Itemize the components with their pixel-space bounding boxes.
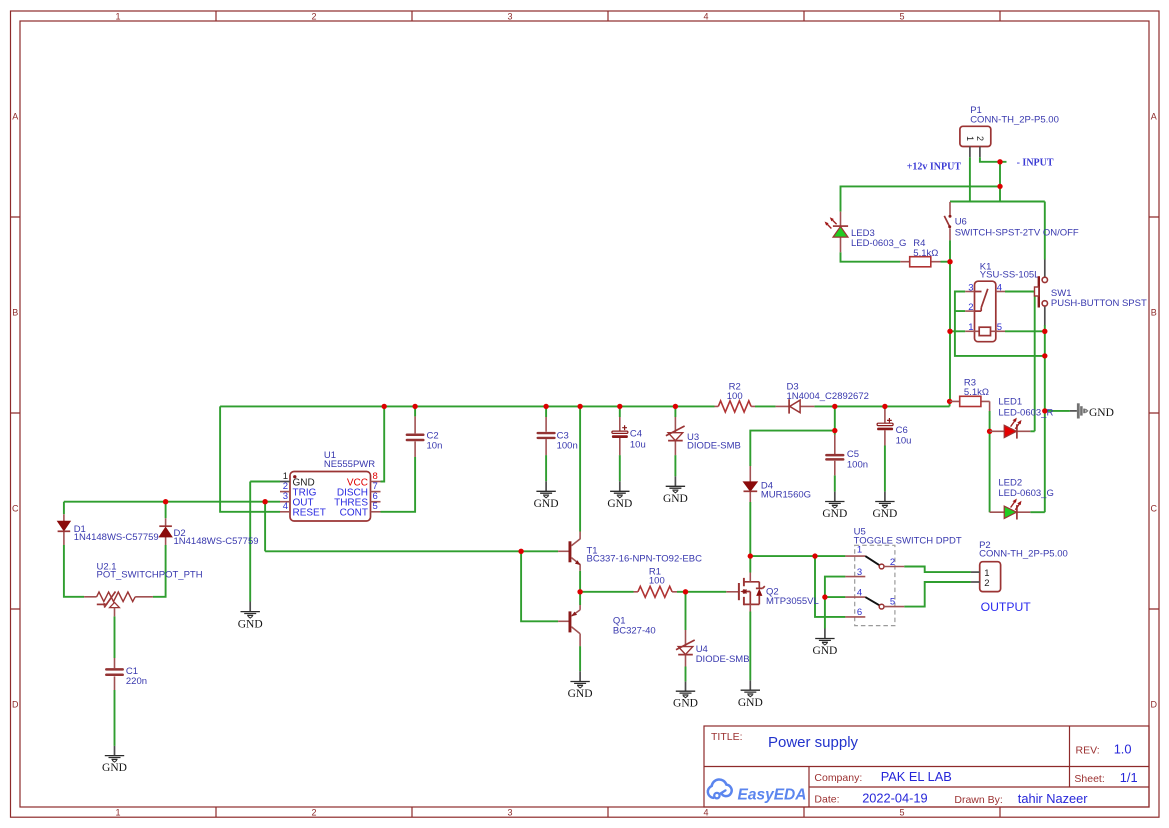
wire SW1 bottom to K1 row xyxy=(1044,325,1046,331)
wire C6 bottom xyxy=(884,446,886,492)
wire U4 branch down xyxy=(685,592,687,630)
svg-text:2: 2 xyxy=(984,578,989,589)
svg-text:Sheet:: Sheet: xyxy=(1074,773,1104,785)
zener U3 DIODE-SMB xyxy=(666,417,741,455)
svg-text:1: 1 xyxy=(965,136,975,141)
ground symbol at U3 xyxy=(663,476,688,505)
svg-text:GND: GND xyxy=(102,762,127,774)
wire C2 top xyxy=(414,406,416,416)
wire LED2 anode drop xyxy=(989,431,991,512)
wire LED1 cathode tail xyxy=(1030,430,1034,432)
svg-text:Company:: Company: xyxy=(814,772,862,784)
wire LED2 cathode tail xyxy=(1030,511,1045,513)
connector P1 CONN-TH_2P-P5.00 xyxy=(960,105,1059,157)
junction dot D4 branch xyxy=(832,428,837,433)
wire U3 top xyxy=(674,406,676,417)
svg-text:5: 5 xyxy=(899,12,904,22)
svg-text:GND: GND xyxy=(534,498,559,510)
frame row letters right xyxy=(1151,112,1158,710)
wire C4 bottom xyxy=(619,455,621,481)
wire U1 OUT row D1 D2 xyxy=(64,501,280,503)
svg-text:2: 2 xyxy=(311,808,316,818)
U1 pin 1 GND xyxy=(280,481,290,483)
ground symbol at Q2 xyxy=(738,680,763,708)
junction dot K1 row right xyxy=(1042,329,1047,334)
svg-text:2: 2 xyxy=(311,12,316,22)
wire Q2 drain node to U5 pin1 xyxy=(750,555,845,557)
wire C2 bottom to U1 CONT xyxy=(381,457,416,512)
junction dot +12v rail xyxy=(997,184,1002,189)
ground symbol at C1 xyxy=(102,746,127,774)
svg-text:5: 5 xyxy=(899,808,904,818)
capacitor C4 10u polarized xyxy=(612,417,646,455)
svg-text:GND: GND xyxy=(568,688,593,700)
wire SW1 pole down to LED1 cathode xyxy=(1034,292,1036,432)
wire K1 left column down to R3 xyxy=(949,331,951,401)
ground symbol at C6 xyxy=(872,492,897,520)
resistor R4 5.1kΩ xyxy=(900,238,940,267)
wire top switch rail xyxy=(950,201,1045,203)
svg-text:220n: 220n xyxy=(126,676,147,687)
U5 pin 3 xyxy=(845,576,865,578)
junction dot R1 right xyxy=(683,589,688,594)
junction dot D2 top xyxy=(163,499,168,504)
wire K1 pin1 row left xyxy=(950,330,965,332)
ground symbol at U1 pin1 xyxy=(238,602,263,631)
wire T1 emitter to R1 row xyxy=(579,571,581,592)
svg-text:1: 1 xyxy=(857,544,862,555)
U1 pin 6 THRES xyxy=(371,501,381,503)
junction dot K1 row left xyxy=(947,329,952,334)
K1 pin 5 xyxy=(991,330,1006,332)
resistor R1 100 xyxy=(634,566,678,597)
resistor R3 5.1kΩ xyxy=(950,378,990,411)
push button SW1 PUSH-BUTTON SPST xyxy=(1035,260,1147,326)
U5 pole arm 4-5 xyxy=(865,597,879,605)
svg-text:GND: GND xyxy=(238,618,263,630)
potentiometer U2.1 POT_SWITCHPOT_PTH xyxy=(84,562,203,617)
P1 pin 1 xyxy=(969,147,971,158)
wire U5 pin3 to ground column xyxy=(825,577,846,629)
wire GND net branch xyxy=(1045,410,1070,412)
ground symbol at C3 xyxy=(534,481,559,510)
P1 pin 2 xyxy=(979,147,981,158)
svg-text:GND: GND xyxy=(1089,407,1114,419)
svg-text:GND: GND xyxy=(738,697,763,709)
junction dot U5 pin6 branch xyxy=(812,553,817,558)
svg-text:10u: 10u xyxy=(630,439,646,450)
U1 pin 3 OUT xyxy=(280,501,290,503)
U1 pin 2 TRIG xyxy=(280,491,290,493)
wire branch down to Q1 base xyxy=(521,551,558,621)
diode D3 1N4004_C2892672 xyxy=(776,382,869,414)
EasyEDA logo xyxy=(708,779,807,803)
svg-text:GND: GND xyxy=(822,508,847,520)
wire OUT drop to base row xyxy=(264,502,266,552)
wire D1 bottom to pot xyxy=(64,545,84,597)
wire right branch down to LED2 xyxy=(1044,331,1046,512)
svg-text:RESET: RESET xyxy=(293,508,326,519)
junction dot R3 left xyxy=(947,399,952,404)
U1 pin 5 CONT xyxy=(371,511,381,513)
svg-text:NE555PWR: NE555PWR xyxy=(324,459,375,470)
wire Q2 drain stub xyxy=(749,556,751,572)
svg-text:4: 4 xyxy=(283,501,288,512)
frame column numbers bottom xyxy=(115,808,904,818)
svg-text:EasyEDA: EasyEDA xyxy=(738,787,807,804)
wire D1 top xyxy=(63,502,65,515)
K1 pin 1 xyxy=(965,330,979,332)
wire C3 bottom xyxy=(545,455,547,481)
resistor R2 100 xyxy=(715,382,756,412)
connector P2 CONN-TH_2P-P5.00 xyxy=(971,540,1068,592)
ground symbol at U4 xyxy=(673,682,698,710)
transistor Q1 BC327-40 xyxy=(558,605,656,646)
svg-text:1N4148WS-C57759: 1N4148WS-C57759 xyxy=(174,536,259,547)
svg-text:BC337-16-NPN-TO92-EBC: BC337-16-NPN-TO92-EBC xyxy=(587,553,703,564)
wire U5 pin2 to P2 pin1 xyxy=(904,567,971,573)
diode D4 MUR1560G xyxy=(744,466,812,502)
junction dot R4/U6 xyxy=(947,259,952,264)
wire SW1 top from rail xyxy=(1044,202,1046,260)
svg-text:GND: GND xyxy=(607,498,632,510)
svg-text:1: 1 xyxy=(115,808,120,818)
svg-text:1/1: 1/1 xyxy=(1120,770,1138,785)
K1 coil xyxy=(979,327,990,335)
svg-text:B: B xyxy=(12,308,18,318)
junction dot T1 collector xyxy=(577,404,582,409)
svg-text:Drawn By:: Drawn By: xyxy=(954,794,1002,806)
svg-text:Date:: Date: xyxy=(814,794,839,806)
frame column numbers top xyxy=(115,12,904,22)
wire C4 top xyxy=(619,406,621,417)
svg-text:A: A xyxy=(12,112,18,122)
U5 pin 5 xyxy=(884,606,904,608)
K1 internal switch xyxy=(975,289,988,311)
U5 pin 1 xyxy=(845,555,865,557)
wire C5 body down xyxy=(834,431,836,435)
svg-text:MUR1560G: MUR1560G xyxy=(761,490,811,501)
wire LED3 cathode to R4 xyxy=(841,252,901,261)
svg-text:C: C xyxy=(12,504,19,514)
ground symbol at C4 xyxy=(607,481,632,510)
wire Q1 emitter from R1 junction xyxy=(579,592,581,605)
junction dot R1 left xyxy=(577,589,582,594)
svg-text:MTP3055VL: MTP3055VL xyxy=(766,596,819,607)
wire C5 bottom xyxy=(834,475,836,491)
svg-text:BC327-40: BC327-40 xyxy=(613,625,656,636)
junction dot U3 xyxy=(673,404,678,409)
U5 pin 2 xyxy=(884,566,904,568)
svg-text:D: D xyxy=(1151,700,1158,710)
relay K1 YSU-SS-105L xyxy=(965,262,1039,342)
svg-text:100: 100 xyxy=(649,575,665,586)
svg-text:4: 4 xyxy=(857,587,862,598)
svg-text:6: 6 xyxy=(857,607,862,618)
junction dot VCC riser xyxy=(382,404,387,409)
capacitor C6 10u polarized xyxy=(877,409,911,446)
ground symbol at U5 xyxy=(812,629,837,658)
svg-text:2: 2 xyxy=(890,557,895,568)
svg-text:LED1: LED1 xyxy=(998,397,1022,408)
svg-text:100n: 100n xyxy=(847,459,868,470)
svg-text:2: 2 xyxy=(968,302,973,313)
svg-text:LED-0603_R: LED-0603_R xyxy=(998,407,1053,418)
wire R1 right to Q2 gate xyxy=(677,591,726,593)
svg-text:10n: 10n xyxy=(427,440,443,451)
svg-text:LED2: LED2 xyxy=(998,478,1022,489)
svg-text:TITLE:: TITLE: xyxy=(711,731,743,743)
svg-text:DIODE-SMB: DIODE-SMB xyxy=(696,654,750,665)
wire K1 pin3 wrap to pin2 and bottom row xyxy=(955,292,1045,356)
wire U5 pin6 riser xyxy=(815,556,845,617)
junction dot C3 xyxy=(543,404,548,409)
zener U4 DIODE-SMB xyxy=(676,630,750,667)
title block box xyxy=(704,726,1149,807)
wire U4 bottom to ground xyxy=(685,667,687,682)
wire P1 pin1 +12v input vertical xyxy=(969,157,971,201)
wire D2 top xyxy=(165,502,167,519)
svg-text:OUTPUT: OUTPUT xyxy=(981,600,1032,614)
wire R1 row left xyxy=(580,591,633,593)
capacitor C2 10n xyxy=(407,416,442,457)
svg-text:2: 2 xyxy=(975,136,985,141)
wire LED1 anode riser xyxy=(989,411,991,431)
wire U3 bottom xyxy=(674,455,676,476)
junction dot GND branch xyxy=(1042,408,1047,413)
U5 pole arm 1-2 xyxy=(865,556,879,565)
capacitor C1 220n xyxy=(106,658,147,690)
wire C5 branch from bus xyxy=(834,406,836,430)
wire D4 branch horizontal xyxy=(750,431,835,466)
svg-text:3: 3 xyxy=(507,12,512,22)
diode D2 1N4148WS-C57759 xyxy=(159,518,258,547)
toggle switch U5 TOGGLE SWITCH DPDT xyxy=(845,527,961,626)
wire main bus horizontal xyxy=(220,401,950,406)
svg-text:U6: U6 xyxy=(955,217,967,228)
ground net flag GND (right) xyxy=(1070,403,1114,419)
wire C6 top xyxy=(884,406,886,409)
wire base row to T1 xyxy=(265,550,558,552)
svg-text:GND: GND xyxy=(673,698,698,710)
svg-text:4: 4 xyxy=(703,808,708,818)
LED2 LED-0603_G xyxy=(990,478,1054,520)
svg-text:3: 3 xyxy=(857,567,862,578)
U1 pin 8 VCC xyxy=(371,481,381,483)
MOSFET Q2 MTP3055VL xyxy=(726,573,819,612)
wire U5 pin4 tap xyxy=(825,596,846,598)
svg-text:5: 5 xyxy=(373,501,378,512)
svg-text:POT_SWITCHPOT_PTH: POT_SWITCHPOT_PTH xyxy=(97,570,203,581)
wire pot wiper down to C1 xyxy=(114,616,116,658)
svg-text:REV:: REV: xyxy=(1076,744,1100,756)
svg-text:tahir Nazeer: tahir Nazeer xyxy=(1018,791,1088,806)
U5 pin 6 xyxy=(845,616,865,618)
capacitor C5 100n xyxy=(826,435,868,476)
wire K1 pin4 to SW1 pole xyxy=(1005,291,1035,293)
junction dot U5 pin4 xyxy=(822,594,827,599)
wire U1 VCC riser xyxy=(381,406,385,481)
svg-text:1: 1 xyxy=(115,12,120,22)
ground symbol at C5 xyxy=(822,492,847,520)
svg-text:CONN-TH_2P-P5.00: CONN-TH_2P-P5.00 xyxy=(970,114,1059,125)
junction dot C2 xyxy=(412,404,417,409)
junction dot C5/D4 xyxy=(832,404,837,409)
IC U1 NE555PWR xyxy=(280,450,381,521)
svg-text:DIODE-SMB: DIODE-SMB xyxy=(687,441,741,452)
transistor T1 BC337-16-NPN-TO92-EBC xyxy=(558,532,702,571)
svg-text:+12v INPUT: +12v INPUT xyxy=(907,162,962,173)
svg-text:3: 3 xyxy=(507,808,512,818)
U1 pin 7 DISCH xyxy=(371,491,381,493)
svg-text:4: 4 xyxy=(997,282,1002,293)
wire Q1 collector to ground xyxy=(579,646,581,671)
svg-text:CONT: CONT xyxy=(340,508,368,519)
wire R4 right to U6 bottom junction xyxy=(941,261,951,263)
svg-text:LED-0603_G: LED-0603_G xyxy=(851,238,906,249)
U1 pin 4 RESET xyxy=(280,511,290,513)
svg-text:10u: 10u xyxy=(896,436,912,447)
U5 pin 4 xyxy=(845,596,865,598)
svg-text:Power supply: Power supply xyxy=(768,734,859,751)
wire U6 bottom down to K1 row xyxy=(949,240,951,331)
P2 pin 1 xyxy=(971,571,980,573)
junction dot C4 xyxy=(617,404,622,409)
K1 pin 3 xyxy=(965,291,974,293)
svg-text:D: D xyxy=(12,700,19,710)
wire D2 bottom to pot xyxy=(153,545,166,597)
svg-text:C4: C4 xyxy=(630,428,642,439)
wire D4 cathode down to Q2 drain node xyxy=(749,502,751,556)
wire U1 GND pin1 to ground xyxy=(250,482,280,602)
svg-text:GND: GND xyxy=(663,493,688,505)
svg-text:100: 100 xyxy=(727,391,743,402)
LED1 LED-0603_R xyxy=(990,397,1054,439)
wire P1 pin2 to -INPUT node xyxy=(980,157,1007,162)
ground symbol at Q1 xyxy=(568,671,593,700)
junction dot Q1 base branch xyxy=(518,549,523,554)
P2 pin 2 xyxy=(971,581,980,583)
svg-text:1: 1 xyxy=(968,322,973,333)
wire C1 bottom to ground xyxy=(114,690,116,746)
svg-text:4: 4 xyxy=(703,12,708,22)
svg-text:GND: GND xyxy=(872,508,897,520)
svg-text:2022-04-19: 2022-04-19 xyxy=(862,791,927,806)
svg-text:3: 3 xyxy=(968,282,973,293)
svg-text:1N4148WS-C57759: 1N4148WS-C57759 xyxy=(74,532,159,543)
svg-text:GND: GND xyxy=(812,645,837,657)
svg-text:5: 5 xyxy=(890,597,895,608)
junction dot C6 xyxy=(882,404,887,409)
junction dot -INPUT xyxy=(997,159,1002,164)
wire K1 pin5 row right xyxy=(1005,330,1045,332)
junction dot lower row right xyxy=(1042,353,1047,358)
svg-text:5: 5 xyxy=(997,322,1002,333)
wire T1 collector riser xyxy=(579,406,581,531)
svg-text:SWITCH-SPST-2TV ON/OFF: SWITCH-SPST-2TV ON/OFF xyxy=(955,228,1079,239)
wire U5 pin5 to P2 pin2 xyxy=(904,582,971,607)
svg-text:100n: 100n xyxy=(557,440,578,451)
K1 pin 2 xyxy=(965,310,974,312)
svg-text:B: B xyxy=(1151,308,1157,318)
svg-text:YSU-SS-105L: YSU-SS-105L xyxy=(980,270,1040,281)
svg-text:LED-0603_G: LED-0603_G xyxy=(998,488,1053,499)
wire -INPUT node down xyxy=(999,162,1001,202)
K1 pin 4 xyxy=(996,291,1005,293)
capacitor C3 100n xyxy=(538,417,578,455)
wire Q2 source to ground xyxy=(749,612,751,681)
diode D1 1N4148WS-C57759 xyxy=(58,514,159,545)
svg-text:C: C xyxy=(1151,504,1158,514)
svg-text:CONN-TH_2P-P5.00: CONN-TH_2P-P5.00 xyxy=(979,549,1068,560)
wire C3 top xyxy=(545,406,547,417)
svg-text:A: A xyxy=(1151,112,1157,122)
junction dot Q2 drain xyxy=(748,553,753,558)
switch U6 SWITCH-SPST-2TV ON/OFF xyxy=(944,202,1079,240)
LED3 LED-0603_G xyxy=(825,212,907,253)
wire LED3 top rail xyxy=(841,186,1001,211)
svg-text:1.0: 1.0 xyxy=(1114,741,1132,756)
junction dot LED1 anode xyxy=(987,429,992,434)
svg-text:PUSH-BUTTON SPST: PUSH-BUTTON SPST xyxy=(1051,298,1147,309)
frame row letters left xyxy=(12,112,19,710)
svg-text:C6: C6 xyxy=(896,425,908,436)
svg-text:PAK EL LAB: PAK EL LAB xyxy=(881,769,952,784)
wire bus left drop to U1 RESET xyxy=(220,406,280,511)
svg-text:- INPUT: - INPUT xyxy=(1017,158,1054,169)
junction dot OUT xyxy=(262,499,267,504)
